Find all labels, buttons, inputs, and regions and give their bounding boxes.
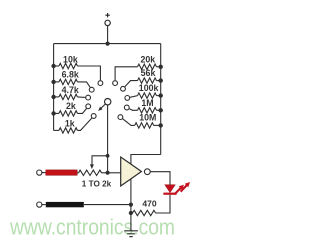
- red probe terminal: [37, 170, 42, 175]
- rotary switch wiper hub: [105, 99, 111, 105]
- junction left bus row 10k: [51, 64, 55, 68]
- wire bus to 10k: [54, 65, 59, 67]
- wire 100k to bus: [157, 95, 161, 97]
- resistor 6.8k: [59, 79, 77, 84]
- switch contact for 6.8k: [89, 87, 94, 92]
- resistor 4.7k: [59, 94, 77, 99]
- black probe terminal: [37, 202, 42, 207]
- junction left bus row 4.7k: [51, 95, 55, 99]
- junction pot wiper tap: [106, 154, 110, 158]
- switch contact for 1M: [124, 105, 129, 110]
- wire terminal to top rail: [107, 26, 109, 44]
- svg-text:470: 470: [142, 198, 156, 208]
- junction left bus row 6.8k: [51, 80, 55, 84]
- inversion bubble: [144, 169, 150, 175]
- wire 2k to contact: [77, 109, 86, 114]
- input terminal: [105, 20, 110, 25]
- wire output to LED: [150, 172, 170, 185]
- wire probe to lead: [42, 204, 46, 206]
- junction on top rail: [106, 42, 110, 46]
- switch contact for 20k: [113, 81, 118, 86]
- rheostat 1 TO 2k: [77, 172, 79, 174]
- junction right bus row 100k: [159, 93, 163, 97]
- junction right bus row 10M: [159, 123, 163, 127]
- wire to ground: [130, 213, 132, 231]
- wire 100k to contact: [130, 96, 137, 98]
- wiper arrow: [100, 104, 106, 109]
- wire rheostat to divider node: [102, 172, 108, 174]
- wire divider node to comparator input: [108, 172, 121, 174]
- svg-text:1 TO 2k: 1 TO 2k: [82, 180, 112, 189]
- wire comparator bottom: [130, 179, 132, 205]
- black test lead: [46, 202, 84, 207]
- right bus wire: [160, 44, 162, 155]
- svg-text:20k: 20k: [140, 54, 155, 64]
- switch contact for 1k: [91, 114, 96, 119]
- junction divider node: [106, 171, 110, 175]
- pot wiper arrow: [90, 164, 94, 169]
- wire 4.7k to contact: [77, 96, 85, 99]
- wire 6.8k to contact: [77, 82, 90, 87]
- wire right bus to comparator top: [131, 155, 161, 165]
- wire bus to 6.8k: [54, 81, 59, 83]
- wire 56k to bus: [157, 80, 161, 82]
- wire wiper node down: [107, 156, 109, 173]
- resistor 1k: [59, 128, 77, 133]
- wire 56k to contact: [125, 81, 138, 87]
- switch contact for 10k: [98, 81, 103, 86]
- wire LED to 470: [156, 195, 170, 213]
- junction left bus row 2k: [51, 111, 55, 115]
- svg-text:6.8k: 6.8k: [62, 70, 79, 80]
- svg-text:2k: 2k: [66, 101, 76, 111]
- wire 1M to bus: [157, 109, 161, 111]
- resistor 100k: [138, 93, 157, 98]
- wire 20k to contact: [115, 67, 137, 81]
- wire black lead to ground node: [84, 204, 131, 206]
- LED D1: [165, 185, 175, 193]
- wire tap to pot arrow: [92, 156, 108, 165]
- switch contact for 100k: [125, 96, 130, 101]
- junction 470 node: [129, 211, 133, 215]
- wire node down: [130, 205, 132, 213]
- wire 10k to contact: [77, 66, 100, 80]
- svg-text:10M: 10M: [139, 113, 156, 123]
- comparator U1: [121, 157, 142, 186]
- switch contact for 10M: [118, 115, 123, 120]
- svg-text:100k: 100k: [139, 83, 159, 93]
- switch contact for 56k: [121, 86, 126, 91]
- switch contact for 4.7k: [86, 95, 91, 100]
- wire bus to 4.7k: [54, 96, 59, 98]
- wire 20k to bus: [157, 66, 161, 68]
- resistor 2k: [59, 111, 77, 116]
- plus polarity mark: [105, 13, 109, 17]
- svg-text:1M: 1M: [141, 98, 153, 108]
- resistor 470: [131, 212, 133, 214]
- resistor 10k: [59, 63, 77, 68]
- left bus wire: [53, 44, 55, 131]
- wire 10M to bus: [154, 124, 161, 126]
- svg-text:56k: 56k: [141, 68, 156, 78]
- wire 1k to contact: [77, 118, 91, 130]
- wire 1M to contact: [129, 109, 137, 111]
- LED emission arrows: [175, 187, 182, 194]
- junction comparator bottom / black lead: [129, 203, 133, 207]
- svg-text:www.cntronics.com: www.cntronics.com: [9, 214, 175, 239]
- junction right bus row 1M: [159, 108, 163, 112]
- wire wiper to divider node: [107, 105, 109, 156]
- resistor 20k: [138, 64, 157, 69]
- resistor 10M: [135, 123, 154, 128]
- wire probe to lead: [42, 172, 46, 174]
- red test lead: [46, 170, 77, 175]
- wire bus to 2k: [54, 112, 59, 114]
- wire 10M to contact: [123, 119, 135, 126]
- wire bus to 1k: [54, 129, 59, 131]
- switch contact for 2k: [86, 104, 91, 109]
- ground symbol: [124, 231, 138, 237]
- junction right bus row 20k: [159, 65, 163, 69]
- junction right bus row 56k: [159, 78, 163, 82]
- svg-text:1k: 1k: [65, 118, 75, 128]
- resistor 1M: [138, 108, 157, 113]
- resistor 56k: [138, 78, 157, 83]
- top rail wire: [54, 43, 161, 45]
